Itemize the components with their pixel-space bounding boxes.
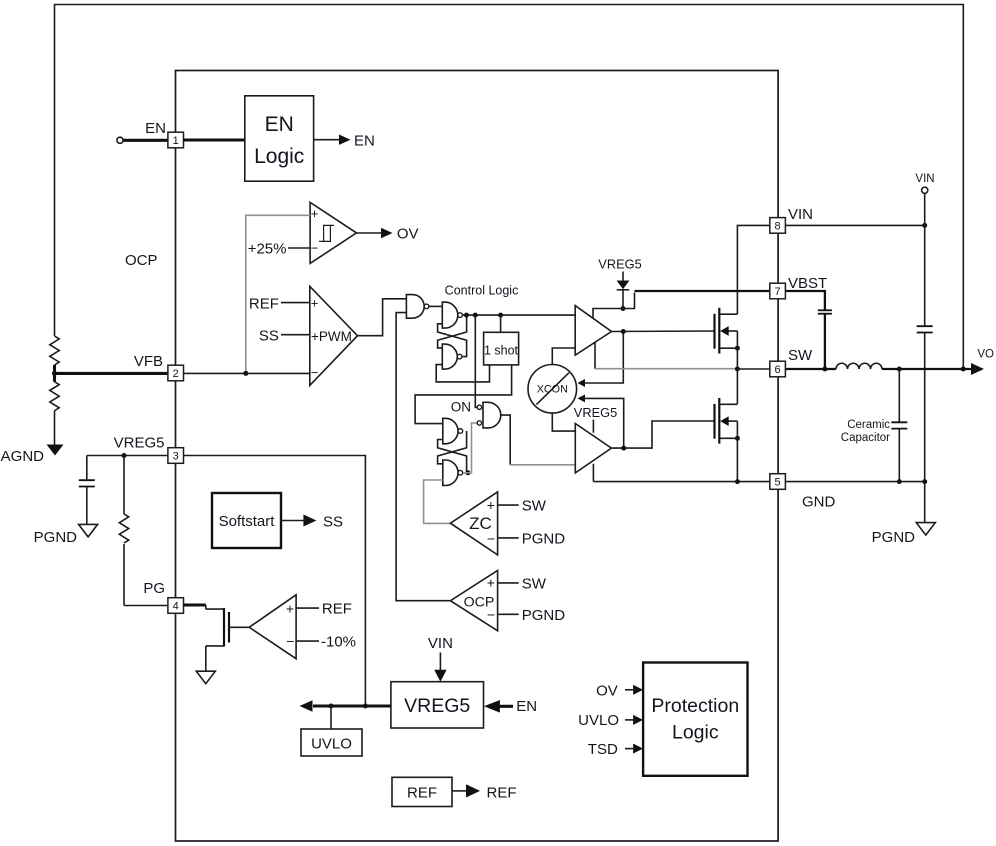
svg-text:−: − (311, 365, 319, 380)
svg-text:Control Logic: Control Logic (445, 284, 519, 298)
wire pin8 to VIN rail (785, 224, 924, 226)
label +PWM (311, 329, 352, 344)
label OCP (464, 594, 495, 610)
svg-text:EN: EN (265, 113, 294, 136)
svg-text:OCP: OCP (125, 252, 158, 269)
transistor Q3 PG open-drain (206, 605, 229, 671)
hysteresis symbol (319, 225, 334, 241)
pin 6 SW (770, 361, 786, 377)
wire latch1 cross-couple (438, 315, 467, 357)
wire EN thick external (123, 139, 168, 142)
wire UVLO tap (330, 706, 332, 729)
wire lower driver out (611, 421, 691, 448)
label VO (977, 349, 994, 361)
svg-text:−: − (311, 241, 319, 256)
wire PG -10% input (296, 634, 356, 651)
wire SW rail gray (595, 368, 737, 370)
block REF (392, 777, 452, 806)
wire +25% to - input (288, 247, 310, 249)
node VIN-GND junction (922, 479, 927, 484)
svg-text:REF: REF (407, 785, 437, 802)
wire OCP fb to G1 input (396, 313, 450, 601)
wire C-BST to SW (824, 315, 826, 370)
wire ZC PGND input (498, 531, 566, 548)
wire 1shot top input (500, 315, 502, 332)
wire Q3 gate (229, 626, 249, 628)
svg-text:VO: VO (977, 349, 994, 361)
op-amp OV comparator (310, 202, 356, 263)
svg-text:REF: REF (487, 785, 517, 802)
node VO junction feedback (961, 367, 966, 372)
block Protection Logic (643, 663, 747, 776)
label VREG5 lower driver (574, 405, 617, 420)
wire XCON bottom to lower driver (552, 413, 575, 431)
diode D1 VREG5 to VBST (598, 257, 641, 309)
wire 1shot out pinB to latch2 (415, 365, 512, 424)
block XCON oscillator (528, 365, 577, 414)
label VBST (788, 275, 827, 292)
wire EN Logic output arrow (314, 135, 351, 145)
svg-text:1: 1 (173, 135, 179, 147)
wire VFB to OV + (gray) (246, 215, 310, 371)
wire R-PG to pin4 (124, 605, 168, 607)
wire Q2 source to GND (736, 438, 738, 481)
label - PG comp (286, 633, 294, 649)
IC boundary box (176, 71, 779, 842)
wire REF input (281, 302, 310, 304)
svg-text:VFB: VFB (134, 353, 163, 370)
node GND junction (735, 479, 740, 484)
node VIN rail junction (922, 223, 927, 228)
wire Q1 source to SW (736, 348, 738, 369)
wire EN into VREG5 arrow (484, 700, 513, 713)
svg-text:EN: EN (145, 120, 166, 137)
node lower driver out (621, 446, 626, 451)
node latch2 B out junction (465, 470, 470, 475)
resistor R2 (lower divider) (50, 382, 59, 445)
svg-text:8: 8 (775, 221, 781, 233)
svg-text:Protection: Protection (651, 695, 739, 717)
label - OV comp (311, 241, 319, 256)
label PG (143, 580, 165, 597)
svg-text:VREG5: VREG5 (574, 405, 617, 420)
label +25% (248, 241, 287, 258)
label + OCP (487, 575, 495, 591)
wire PG REF input (296, 601, 352, 618)
wire lower gate gray seg (691, 420, 715, 422)
block EN Logic U-EN (245, 96, 314, 181)
svg-text:XCON: XCON (537, 383, 568, 395)
wire VBST thick external (785, 291, 825, 310)
pin 4 PG (168, 598, 184, 614)
wire latch2 B bottom input from ZC (gray) (424, 480, 451, 523)
svg-text:VREG5: VREG5 (114, 435, 165, 452)
svg-text:4: 4 (173, 601, 179, 613)
label + OV comp (311, 206, 319, 221)
inductor L1 (836, 363, 882, 369)
block Softstart (212, 493, 281, 548)
resistor R-PG pullup (119, 456, 128, 606)
svg-text:ON: ON (451, 400, 471, 415)
label EN pin1 (145, 120, 166, 137)
wire VIN into VREG5 arrow (434, 653, 446, 682)
block 1 shot (484, 332, 519, 365)
label GND pin5 (802, 494, 836, 511)
label REF output (487, 785, 517, 802)
wire VO thick (882, 363, 984, 375)
svg-text:5: 5 (775, 477, 781, 489)
label ZC (469, 514, 492, 533)
terminal EN (open circle) (117, 137, 123, 143)
node Cout-GND junction (897, 479, 902, 484)
wire SW thick to inductor (785, 368, 836, 370)
svg-text:+PWM: +PWM (311, 329, 352, 344)
gate latch1 NAND pair (442, 302, 462, 369)
svg-text:-10%: -10% (321, 634, 356, 651)
label + PG comp (286, 601, 294, 617)
block VREG5 regulator (391, 682, 484, 728)
svg-text:SS: SS (323, 514, 343, 531)
svg-text:+: + (311, 206, 319, 221)
svg-text:VBST: VBST (788, 275, 827, 292)
op-amp OCP comparator (450, 571, 497, 631)
pin 3 VREG5 (168, 448, 184, 464)
svg-text:+: + (487, 497, 495, 513)
wire latch2 cross-couple (438, 431, 467, 473)
wire R1 to VFB node thick (53, 365, 56, 382)
wire XCON in1 from upper driver out (578, 332, 624, 388)
svg-text:6: 6 (775, 364, 781, 376)
wire Q2 drain to SW (736, 369, 738, 404)
node SW junction (735, 367, 740, 372)
svg-text:Softstart: Softstart (219, 513, 276, 530)
wire lower driver top rail (592, 420, 594, 433)
capacitor C-VIN (917, 326, 933, 332)
svg-text:UVLO: UVLO (578, 712, 619, 729)
svg-text:SW: SW (788, 347, 813, 364)
wire REF output arrow (452, 784, 480, 797)
block UVLO (301, 729, 362, 756)
node VREG5 out dots (329, 704, 368, 709)
svg-text:REF: REF (322, 601, 352, 618)
wire ON gate out to low driver (501, 415, 576, 465)
op-amp PG comparator (249, 595, 296, 659)
capacitor C-VREG5 (79, 456, 95, 525)
wire pin3 external (87, 455, 168, 457)
label REF (249, 296, 279, 313)
ground PGND open (right) (872, 523, 936, 546)
pin 2 VFB (168, 365, 184, 381)
wire upper driver bottom rail to SW (594, 342, 596, 369)
svg-text:SS: SS (259, 328, 279, 345)
ground PG source open triangle (196, 671, 215, 684)
svg-text:UVLO: UVLO (311, 736, 352, 753)
svg-text:PG: PG (143, 580, 165, 597)
wire pin4 thick stub (184, 603, 206, 606)
gate G1 NAND (406, 295, 428, 319)
wire VFB internal (184, 372, 310, 374)
wire EN thick internal (184, 138, 245, 141)
wire lower driver bottom rail to GND (592, 464, 594, 482)
pin 7 VBST (770, 283, 786, 299)
capacitor C-out ceramic (891, 369, 907, 482)
node BST-SW junction (822, 367, 827, 372)
node upper driver out (621, 329, 626, 334)
wire OV into protection (596, 683, 643, 700)
gate ON AND w/ inverted inputs (477, 402, 501, 428)
wire VREG5 output thick left arrow (300, 700, 391, 712)
wire VIN down to cap (924, 193, 926, 326)
svg-text:+: + (487, 575, 495, 591)
pin 8 VIN (770, 218, 786, 234)
svg-text:+25%: +25% (248, 241, 287, 258)
wire VIN cap to GND rail (924, 333, 926, 523)
label Ceramic Capacitor (841, 419, 890, 444)
svg-text:EN: EN (516, 698, 537, 715)
node VFB junction (52, 371, 57, 376)
svg-text:TSD: TSD (588, 741, 618, 758)
wire OCP PGND input (498, 607, 566, 624)
svg-text:SW: SW (522, 498, 547, 515)
wire SS input (281, 334, 310, 336)
transistor Q2 low-side MOSFET (715, 398, 740, 444)
wire latch1 B bottom input from 1shot (436, 365, 489, 382)
svg-text:Logic: Logic (672, 722, 719, 744)
svg-text:VIN: VIN (915, 173, 934, 185)
node latch1 out dots (464, 313, 503, 318)
svg-text:OV: OV (397, 226, 419, 243)
svg-text:−: − (286, 633, 294, 649)
wire SW to pin6 (737, 368, 769, 370)
svg-text:VREG5: VREG5 (404, 695, 470, 717)
svg-text:Capacitor: Capacitor (841, 432, 890, 444)
amp upper gate driver (575, 306, 611, 356)
wire OV output arrow (357, 228, 393, 238)
label - PWM bottom (311, 365, 319, 380)
svg-text:OV: OV (596, 683, 618, 700)
terminal VIN top (open circle) (915, 173, 934, 193)
ground PGND open (left) (34, 524, 98, 546)
svg-text:AGND: AGND (1, 448, 45, 465)
label VREG5 pin3 (114, 435, 165, 452)
transistor Q1 high-side MOSFET (715, 308, 740, 354)
svg-text:+: + (286, 601, 294, 617)
wire Q1 drain to VIN (737, 225, 769, 314)
label + PWM top (311, 296, 319, 311)
wire UVLO into protection (578, 712, 643, 729)
label EN output (354, 133, 375, 150)
resistor R1 (upper divider) (50, 336, 59, 365)
op-amp ZC comparator (450, 492, 497, 555)
svg-text:−: − (487, 531, 495, 547)
svg-text:REF: REF (249, 296, 279, 313)
op-amp PWM comparator (310, 286, 358, 385)
capacitor C-BST bootstrap (818, 310, 832, 313)
svg-text:VIN: VIN (428, 635, 453, 652)
node VREG5 ext junction (122, 453, 127, 458)
svg-text:SW: SW (522, 576, 547, 593)
svg-text:−: − (487, 607, 495, 623)
gate latch2 NAND pair (443, 418, 463, 485)
wire pin5 to PGND net (785, 481, 924, 483)
label - OCP (487, 607, 495, 623)
wire ZC SW input (498, 498, 547, 515)
svg-text:Ceramic: Ceramic (847, 419, 890, 431)
wire latch1 out to ON gate (475, 315, 477, 407)
label OCP stray (125, 252, 158, 269)
ground AGND (filled) (1, 445, 64, 466)
wire XCON in2 from lower driver out (578, 394, 624, 448)
svg-text:EN: EN (354, 133, 375, 150)
label EN VREG5 (516, 698, 537, 715)
svg-text:VREG5: VREG5 (598, 257, 641, 272)
label Control Logic (445, 284, 519, 298)
label - ZC (487, 531, 495, 547)
wire VFB thick to pin 2 (55, 372, 169, 375)
wire upper driver top rail to VBST (593, 293, 635, 319)
pin 5 GND (770, 474, 786, 490)
wire Softstart SS arrow (281, 515, 316, 527)
label ON (451, 400, 471, 415)
wire PWM output (358, 299, 407, 336)
svg-text:7: 7 (775, 286, 781, 298)
node VO junction ceramic (897, 367, 902, 372)
wire TSD into protection (588, 741, 643, 758)
svg-text:PGND: PGND (872, 529, 916, 546)
svg-text:GND: GND (802, 494, 836, 511)
node VFB internal junction (243, 371, 248, 376)
pin 1 EN (168, 132, 184, 148)
label SS output (323, 514, 343, 531)
svg-text:Logic: Logic (254, 145, 304, 168)
svg-text:1 shot: 1 shot (484, 344, 519, 358)
wire pin3 internal to VREG5 block (184, 456, 366, 707)
label + ZC (487, 497, 495, 513)
svg-text:PGND: PGND (34, 529, 78, 546)
wire VBST thick internal (635, 290, 770, 292)
svg-text:3: 3 (173, 451, 179, 463)
svg-text:2: 2 (173, 368, 179, 380)
wire XCON top to upper driver (552, 348, 575, 365)
wire GND rail (593, 481, 769, 483)
svg-text:PGND: PGND (522, 607, 566, 624)
svg-text:+: + (311, 296, 319, 311)
label VIN above VREG5 (428, 635, 453, 652)
label SS (259, 328, 279, 345)
wire upper driver out to HS gate (612, 330, 715, 333)
svg-text:VIN: VIN (788, 206, 813, 223)
wire OCP SW input (498, 576, 547, 593)
wire latch1 A-out to driver (463, 314, 576, 316)
svg-text:PGND: PGND (522, 531, 566, 548)
label VIN pin8 (788, 206, 813, 223)
wire G1 out to latch1 (429, 305, 443, 307)
label OV output (397, 226, 419, 243)
label SW pin6 (788, 347, 813, 364)
wire latch2 B out to ON gate 2nd input (gray) (463, 423, 477, 473)
label VFB (134, 353, 163, 370)
node diode-VBST junction (621, 306, 626, 311)
wire feedback loop VO to divider (left/top/right) (55, 5, 964, 370)
amp lower gate driver (575, 424, 611, 473)
